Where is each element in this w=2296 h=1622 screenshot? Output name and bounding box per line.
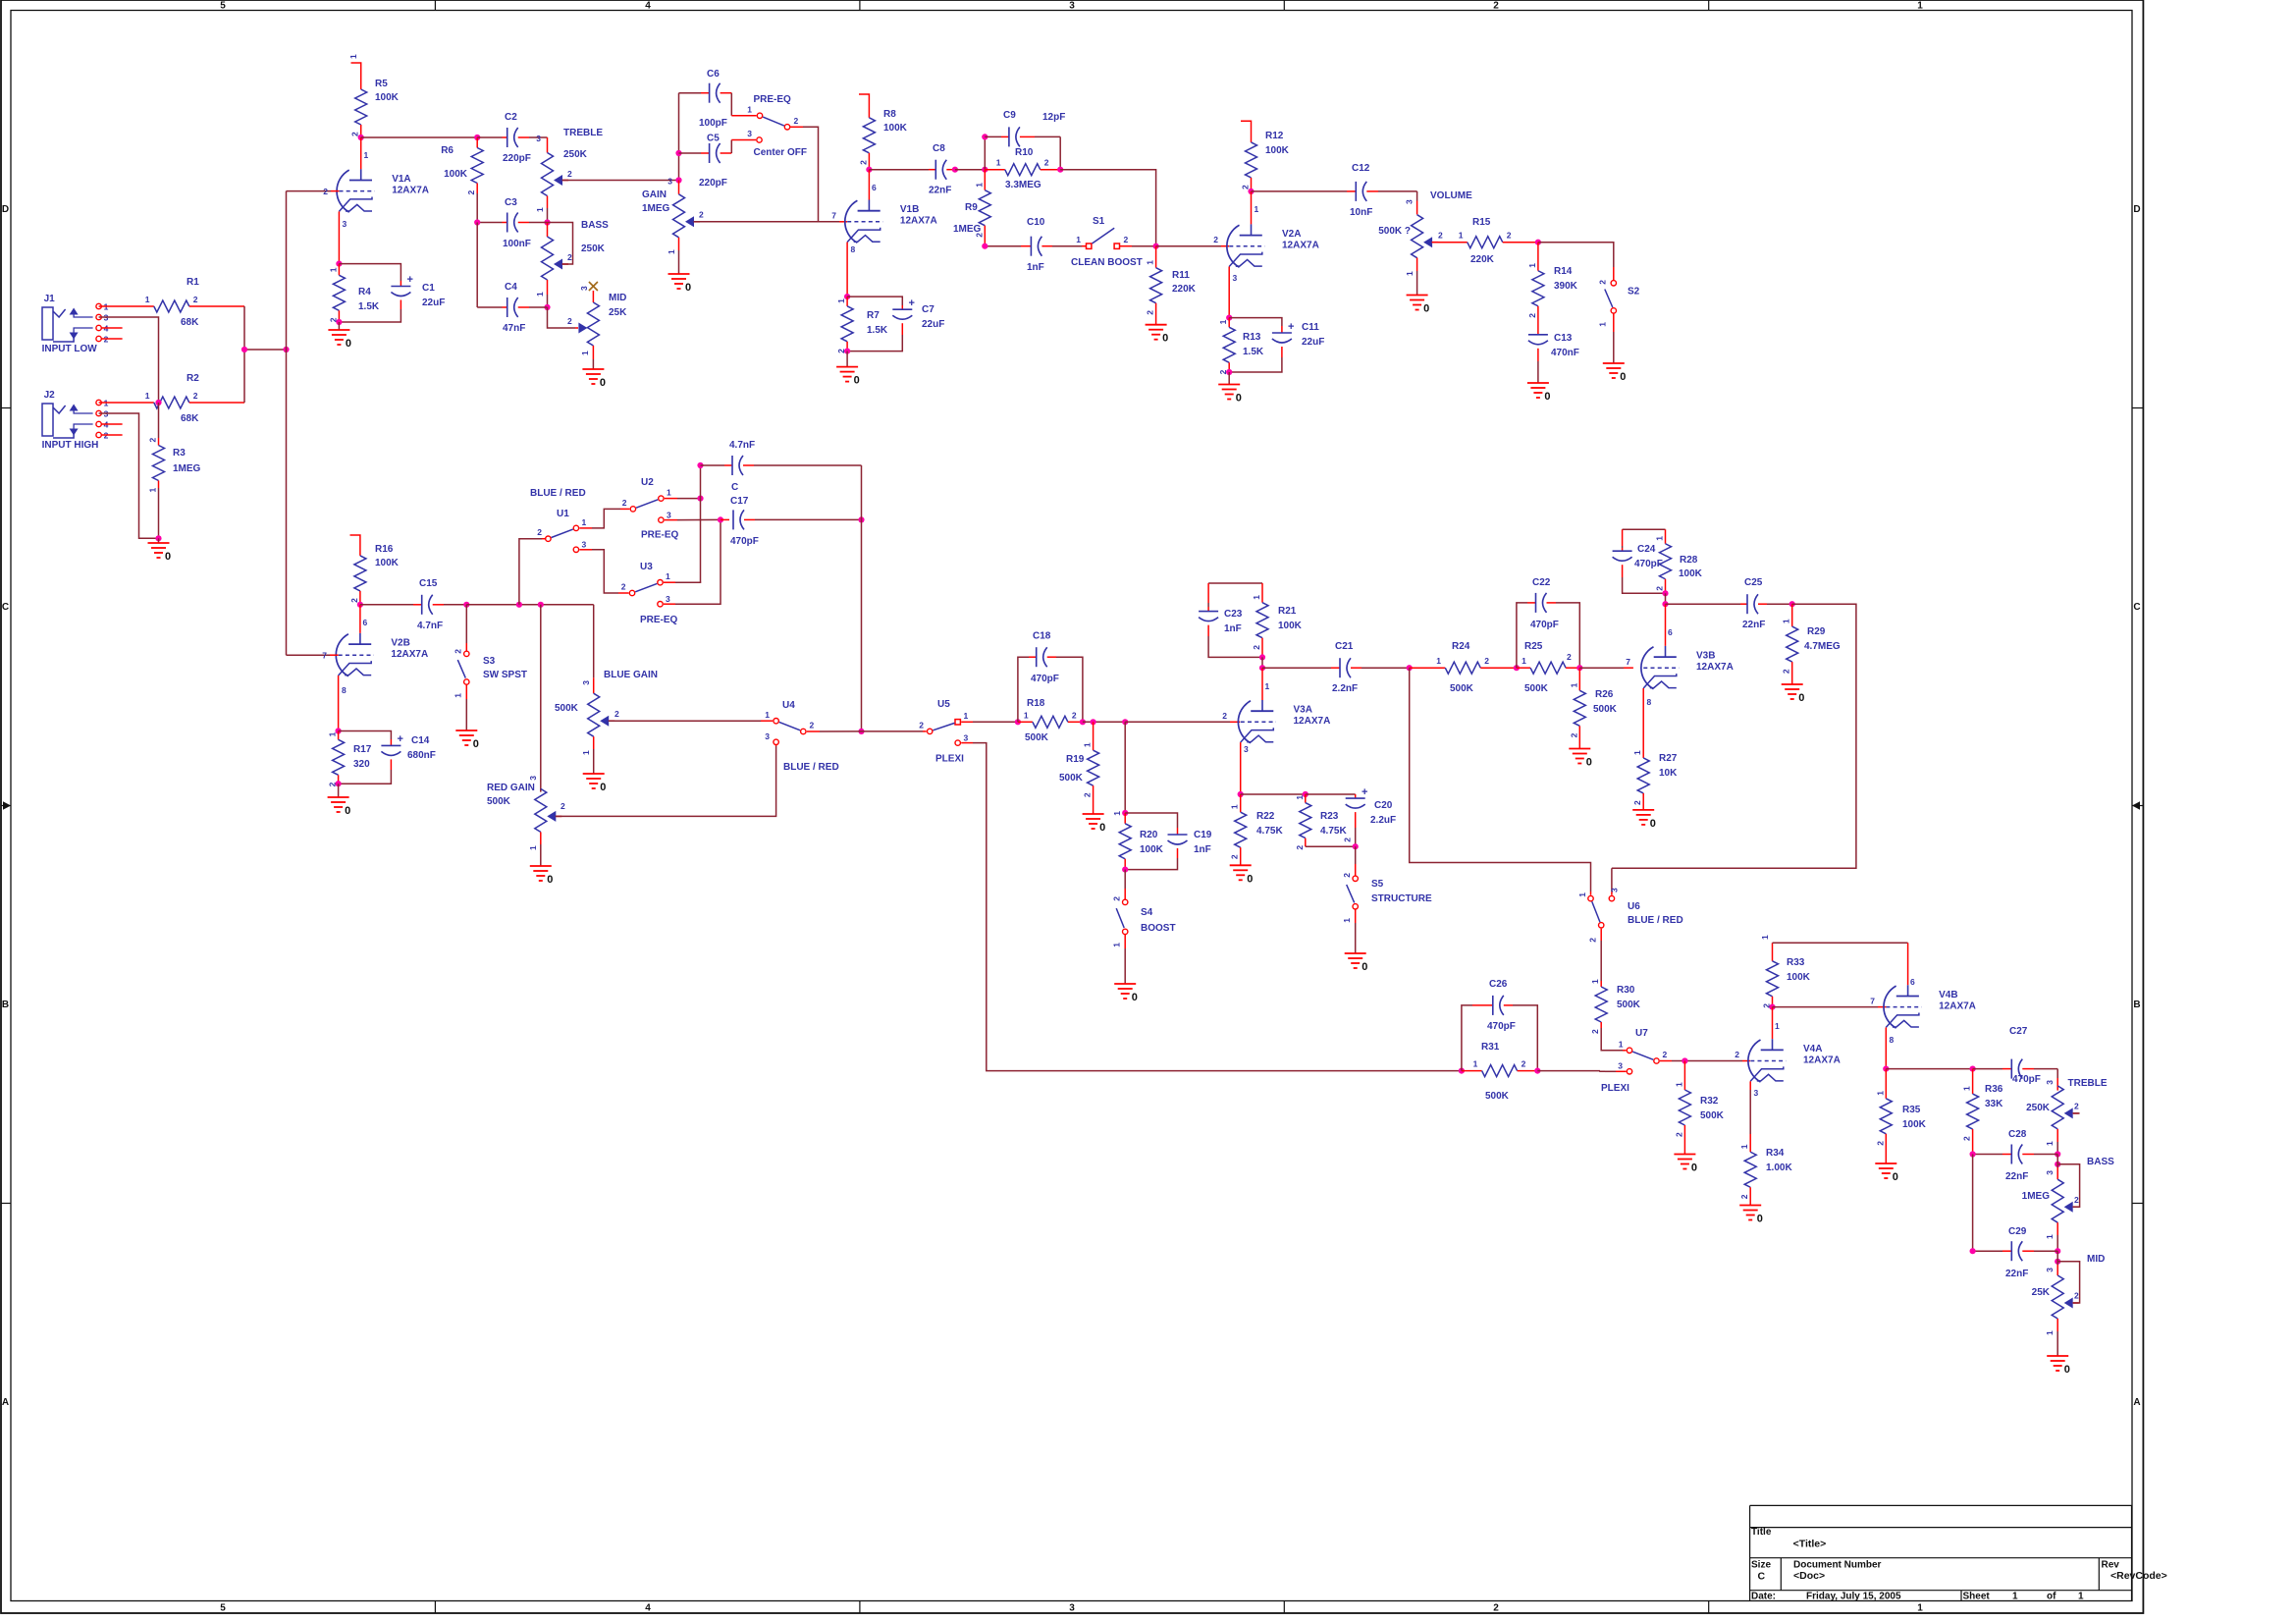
svg-text:22nF: 22nF xyxy=(1742,620,1765,630)
svg-text:S3: S3 xyxy=(483,656,496,667)
svg-text:C22: C22 xyxy=(1532,577,1551,588)
svg-text:1: 1 xyxy=(1405,271,1415,276)
ground RED GAIN xyxy=(530,865,552,867)
svg-text:R26: R26 xyxy=(1595,689,1614,700)
svg-text:100K: 100K xyxy=(1140,844,1164,855)
wire V2B cathode xyxy=(338,676,340,731)
switch U5 xyxy=(928,729,933,733)
svg-text:CLEAN BOOST: CLEAN BOOST xyxy=(1071,257,1143,268)
svg-text:470pF: 470pF xyxy=(1487,1021,1516,1032)
resistor R30 xyxy=(1600,981,1602,987)
svg-text:25K: 25K xyxy=(609,307,627,318)
svg-text:R16: R16 xyxy=(375,544,394,555)
svg-text:0: 0 xyxy=(1544,391,1550,403)
switch U6 BLUE/RED xyxy=(1588,895,1593,900)
svg-text:0: 0 xyxy=(1586,757,1592,769)
potentiometer TREBLE xyxy=(542,153,554,196)
switch U3 xyxy=(629,590,634,595)
svg-text:U5: U5 xyxy=(937,699,950,710)
svg-text:2: 2 xyxy=(699,210,704,220)
wire R30 to U7 pin1 xyxy=(1601,1028,1623,1051)
svg-text:PLEXI: PLEXI xyxy=(1601,1083,1629,1094)
svg-text:1: 1 xyxy=(1527,263,1537,268)
node ground junction xyxy=(155,535,161,541)
svg-text:0: 0 xyxy=(1162,333,1168,345)
svg-text:PRE-EQ: PRE-EQ xyxy=(754,94,792,105)
resistor R12 xyxy=(1241,121,1252,129)
wire V2B grid stub xyxy=(287,654,331,656)
svg-text:0: 0 xyxy=(685,282,691,294)
svg-text:2: 2 xyxy=(466,190,476,195)
svg-text:0: 0 xyxy=(1650,818,1656,830)
capacitor C9 xyxy=(984,136,986,169)
svg-text:2: 2 xyxy=(1146,310,1155,315)
svg-text:6: 6 xyxy=(872,183,877,192)
svg-text:100K: 100K xyxy=(375,558,400,568)
svg-text:V4A: V4A xyxy=(1803,1044,1822,1054)
wire RED GAIN column xyxy=(540,605,542,792)
switch S1 CLEAN BOOST xyxy=(1082,245,1087,247)
svg-text:1: 1 xyxy=(1342,918,1352,923)
capacitor C12 xyxy=(1252,190,1348,192)
svg-text:C: C xyxy=(2,602,9,613)
svg-text:Sheet: Sheet xyxy=(1963,1591,1991,1601)
svg-text:STRUCTURE: STRUCTURE xyxy=(1371,893,1432,904)
svg-text:Size: Size xyxy=(1751,1560,1771,1571)
potentiometer MID (2) xyxy=(2056,1265,2058,1275)
svg-text:2: 2 xyxy=(1735,1050,1739,1059)
svg-text:1nF: 1nF xyxy=(1194,844,1211,855)
svg-text:Rev: Rev xyxy=(2102,1560,2120,1571)
potentiometer TREBLE (2) xyxy=(2052,1086,2063,1129)
svg-text:1: 1 xyxy=(1436,656,1441,666)
svg-text:68K: 68K xyxy=(181,317,199,328)
svg-text:1: 1 xyxy=(1252,595,1261,600)
svg-text:0: 0 xyxy=(1691,1162,1697,1174)
svg-text:C18: C18 xyxy=(1033,631,1051,642)
node R4 bottom xyxy=(336,319,342,325)
svg-text:1.00K: 1.00K xyxy=(1766,1162,1792,1173)
svg-text:Friday, July 15, 2005: Friday, July 15, 2005 xyxy=(1806,1591,1901,1601)
svg-text:3: 3 xyxy=(1754,1088,1759,1098)
wire V3B plate column xyxy=(1665,593,1667,604)
node R6 top xyxy=(474,135,480,140)
svg-text:2: 2 xyxy=(810,721,815,730)
svg-text:1: 1 xyxy=(1775,1021,1780,1031)
svg-text:0: 0 xyxy=(345,805,350,817)
wire U1 pin3 to U3 pin2 xyxy=(579,549,592,551)
svg-text:2.2uF: 2.2uF xyxy=(1370,815,1396,826)
node U1 column xyxy=(516,602,522,608)
resistor R8 xyxy=(859,94,869,101)
potentiometer VOLUME xyxy=(1412,215,1423,258)
ground C13 xyxy=(1527,382,1549,384)
svg-text:1MEG: 1MEG xyxy=(173,463,201,474)
svg-text:1.5K: 1.5K xyxy=(1243,347,1264,357)
svg-text:TREBLE: TREBLE xyxy=(563,128,603,138)
svg-text:0: 0 xyxy=(854,375,860,387)
wire TREBLE2 wiper stub xyxy=(2073,1112,2080,1114)
svg-text:INPUT LOW: INPUT LOW xyxy=(42,344,98,354)
svg-text:1: 1 xyxy=(1655,536,1665,541)
svg-text:500K: 500K xyxy=(487,796,511,807)
svg-text:2: 2 xyxy=(1222,711,1227,721)
wire TREBLE wiper to GAIN xyxy=(562,180,679,182)
wire V3B plate xyxy=(1665,604,1667,646)
node R20 column top xyxy=(1122,719,1128,725)
ground input xyxy=(158,538,160,543)
node R36 top xyxy=(1970,1066,1976,1072)
resistor R5 xyxy=(351,63,361,77)
svg-text:680nF: 680nF xyxy=(407,750,436,761)
node C20 bottom xyxy=(1353,843,1359,849)
svg-text:C10: C10 xyxy=(1027,217,1045,228)
svg-text:2: 2 xyxy=(323,187,328,196)
resistor R3 xyxy=(158,403,160,438)
svg-text:6: 6 xyxy=(363,618,368,627)
ground R35 xyxy=(1875,1162,1896,1164)
capacitor C17 xyxy=(721,518,729,520)
node V1B cathode xyxy=(844,294,850,299)
node V3A plate xyxy=(1259,665,1265,671)
svg-text:C19: C19 xyxy=(1194,830,1212,840)
svg-text:2: 2 xyxy=(567,252,572,262)
node V1A cathode xyxy=(336,261,342,267)
svg-text:100K: 100K xyxy=(1787,972,1811,983)
wire U3 pin1 to C16 column xyxy=(664,581,675,583)
svg-text:A: A xyxy=(2133,1397,2140,1408)
svg-text:J1: J1 xyxy=(44,294,56,304)
svg-text:1: 1 xyxy=(580,351,590,355)
triode V1A xyxy=(360,169,362,180)
ground S3 xyxy=(455,730,477,731)
wire C27 to TREBLE2 xyxy=(2056,1069,2058,1078)
svg-text:S5: S5 xyxy=(1371,879,1384,890)
svg-text:0: 0 xyxy=(1620,371,1626,383)
node BASS2 top xyxy=(2055,1162,2060,1167)
wire V1A plate row xyxy=(361,136,478,138)
node V1B plate xyxy=(866,167,872,173)
switch S5 STRUCTURE xyxy=(1355,846,1357,864)
svg-text:0: 0 xyxy=(1757,1214,1763,1225)
svg-text:1: 1 xyxy=(1230,804,1240,809)
wire U7 pin3 to PLEXI run xyxy=(1616,1070,1627,1072)
svg-text:6: 6 xyxy=(1910,977,1915,987)
svg-text:1: 1 xyxy=(1265,681,1270,691)
svg-text:2: 2 xyxy=(567,169,572,179)
node V2A cathode xyxy=(1226,315,1232,321)
svg-text:R11: R11 xyxy=(1172,270,1190,281)
resistor R2 xyxy=(99,402,154,404)
svg-text:<Doc>: <Doc> xyxy=(1793,1570,1825,1582)
svg-text:1: 1 xyxy=(666,571,670,581)
svg-text:2: 2 xyxy=(148,438,158,443)
node C16 column mid xyxy=(697,496,703,502)
wire V1B plate xyxy=(868,170,870,200)
node R14 top xyxy=(1535,240,1541,245)
wire C21 node to U6 pin1 xyxy=(1410,668,1591,892)
svg-text:C20: C20 xyxy=(1374,800,1393,811)
svg-text:R17: R17 xyxy=(353,744,372,755)
svg-text:1: 1 xyxy=(1076,235,1081,244)
svg-text:3: 3 xyxy=(667,511,671,520)
potentiometer BLUE GAIN xyxy=(593,677,595,693)
switch PRE-EQ Center OFF xyxy=(757,113,762,118)
svg-text:500K: 500K xyxy=(1524,683,1549,694)
node R24 right xyxy=(1514,665,1520,671)
svg-text:1: 1 xyxy=(528,845,538,850)
svg-text:1: 1 xyxy=(1024,710,1029,720)
svg-text:2: 2 xyxy=(1438,231,1443,241)
svg-text:390K: 390K xyxy=(1554,281,1578,292)
wire R15 to S2 xyxy=(1538,243,1614,267)
svg-text:470nF: 470nF xyxy=(1551,348,1579,358)
svg-text:3.3MEG: 3.3MEG xyxy=(1005,180,1041,190)
svg-text:2: 2 xyxy=(1252,645,1261,650)
svg-text:320: 320 xyxy=(353,759,370,770)
node U4/U5 row xyxy=(858,729,864,734)
svg-text:1: 1 xyxy=(535,292,545,297)
svg-text:C14: C14 xyxy=(411,735,430,746)
svg-text:2: 2 xyxy=(1782,669,1791,674)
wire R23 bottom to C20 bottom xyxy=(1306,845,1356,847)
svg-text:C27: C27 xyxy=(2009,1026,2028,1037)
svg-text:V2A: V2A xyxy=(1282,229,1301,240)
resistor R33 xyxy=(1772,943,1774,950)
svg-text:0: 0 xyxy=(2064,1364,2070,1376)
svg-text:1: 1 xyxy=(364,150,369,160)
svg-text:C7: C7 xyxy=(922,304,934,315)
svg-text:1: 1 xyxy=(348,54,358,59)
svg-text:PRE-EQ: PRE-EQ xyxy=(641,530,679,541)
svg-text:1: 1 xyxy=(454,693,463,698)
svg-text:2: 2 xyxy=(1044,158,1049,168)
svg-text:10K: 10K xyxy=(1659,768,1678,779)
svg-text:C2: C2 xyxy=(505,112,517,123)
svg-text:3: 3 xyxy=(1618,1061,1623,1071)
svg-text:A: A xyxy=(2,1397,9,1408)
capacitor C6 xyxy=(679,92,702,94)
svg-text:1MEG: 1MEG xyxy=(642,203,670,214)
triode V4B xyxy=(1907,985,1909,996)
wire U2 pin1 to C16 column xyxy=(665,498,677,500)
svg-text:0: 0 xyxy=(1236,393,1242,405)
svg-text:R23: R23 xyxy=(1320,811,1339,822)
capacitor C28 xyxy=(1972,1068,1974,1070)
centering arrows xyxy=(3,801,11,810)
svg-text:2: 2 xyxy=(454,649,463,654)
svg-text:0: 0 xyxy=(165,551,171,563)
svg-text:R1: R1 xyxy=(187,277,199,288)
svg-text:22nF: 22nF xyxy=(2005,1171,2028,1182)
svg-text:R24: R24 xyxy=(1452,641,1470,652)
node J2.1 xyxy=(155,400,161,405)
svg-text:2: 2 xyxy=(1875,1141,1885,1146)
svg-text:1: 1 xyxy=(1739,1144,1749,1149)
resistor R36 xyxy=(1972,1069,1974,1094)
resistor R27 xyxy=(1642,741,1644,758)
svg-text:2: 2 xyxy=(2074,1291,2079,1301)
node input junction xyxy=(241,347,247,352)
svg-text:V2B: V2B xyxy=(391,638,409,649)
svg-text:470pF: 470pF xyxy=(1530,620,1559,630)
node R13 bottom xyxy=(1226,369,1232,375)
potentiometer RED GAIN xyxy=(540,791,542,793)
triode V2B xyxy=(359,633,361,644)
svg-text:3: 3 xyxy=(666,594,670,604)
svg-text:+: + xyxy=(909,297,915,309)
svg-text:2: 2 xyxy=(567,316,572,326)
svg-text:Center OFF: Center OFF xyxy=(754,147,807,158)
svg-text:V4B: V4B xyxy=(1939,990,1957,1000)
wire R6 column to C4 row xyxy=(476,223,478,308)
node V3A cathode xyxy=(1238,791,1244,797)
ground R32 xyxy=(1674,1154,1695,1156)
wire S2 to ground xyxy=(1613,313,1615,332)
switch S3 SW SPST xyxy=(465,605,467,643)
potentiometer MID xyxy=(578,323,587,334)
svg-text:BLUE / RED: BLUE / RED xyxy=(530,488,586,499)
svg-text:2: 2 xyxy=(537,527,542,537)
node R9 bottom xyxy=(982,243,988,249)
svg-text:500K: 500K xyxy=(1700,1110,1725,1121)
svg-text:1: 1 xyxy=(1083,742,1093,747)
svg-text:C4: C4 xyxy=(505,282,517,293)
wire cathode row to R23 xyxy=(1241,793,1306,795)
svg-text:2: 2 xyxy=(1663,1050,1668,1059)
svg-text:C25: C25 xyxy=(1744,577,1763,588)
svg-text:2: 2 xyxy=(1072,710,1077,720)
wire C15 row to BLUE GAIN xyxy=(466,604,593,606)
svg-text:2: 2 xyxy=(1230,854,1240,859)
wire V3A plate column xyxy=(1261,657,1263,668)
svg-text:500K: 500K xyxy=(1617,1000,1641,1010)
svg-text:+: + xyxy=(1362,786,1367,798)
svg-text:0: 0 xyxy=(346,338,351,350)
capacitor C15 xyxy=(360,604,413,606)
svg-text:1nF: 1nF xyxy=(1027,262,1044,273)
svg-text:BASS: BASS xyxy=(581,220,609,231)
svg-text:1: 1 xyxy=(1112,811,1122,816)
svg-text:C13: C13 xyxy=(1554,333,1573,344)
svg-text:1: 1 xyxy=(1255,204,1259,214)
svg-text:1: 1 xyxy=(1459,231,1464,241)
svg-text:470pF: 470pF xyxy=(1031,674,1059,684)
svg-text:500K: 500K xyxy=(1593,704,1618,715)
node C5 left xyxy=(675,150,681,156)
svg-text:B: B xyxy=(2,1000,9,1010)
svg-text:1MEG: 1MEG xyxy=(2022,1191,2051,1202)
svg-text:3: 3 xyxy=(667,177,672,187)
jack J1 INPUT LOW xyxy=(42,307,53,340)
svg-text:1: 1 xyxy=(1917,1,1923,12)
wire V1A plate xyxy=(360,137,362,169)
wire C16/C17 right column to U5 row xyxy=(861,465,863,731)
svg-text:J2: J2 xyxy=(44,390,56,401)
ground R19 xyxy=(1083,813,1104,815)
svg-text:8: 8 xyxy=(1890,1035,1895,1045)
node R31 right xyxy=(1534,1068,1540,1074)
svg-text:4.7nF: 4.7nF xyxy=(417,621,443,631)
wire V4A plate row to V4B grid xyxy=(1773,1006,1879,1008)
svg-text:1: 1 xyxy=(2078,1591,2084,1601)
svg-text:SW SPST: SW SPST xyxy=(483,670,527,680)
svg-text:3: 3 xyxy=(964,733,969,743)
svg-text:2: 2 xyxy=(561,801,565,811)
svg-text:R10: R10 xyxy=(1015,147,1034,158)
ground V2A cathode xyxy=(1228,372,1230,385)
svg-text:0: 0 xyxy=(600,377,606,389)
switch U1 BLUE/RED xyxy=(546,536,551,541)
wire V1A cathode xyxy=(338,211,340,263)
svg-text:1: 1 xyxy=(1522,656,1526,666)
svg-text:Document Number: Document Number xyxy=(1793,1560,1882,1571)
node S3 top xyxy=(463,602,469,608)
svg-text:22nF: 22nF xyxy=(929,186,951,196)
svg-text:Date:: Date: xyxy=(1751,1591,1776,1601)
svg-text:C: C xyxy=(2133,602,2140,613)
svg-text:1: 1 xyxy=(328,267,338,272)
node R7 bottom xyxy=(844,349,850,354)
triode V3B xyxy=(1665,646,1667,657)
wire C28 left column to C29 xyxy=(1972,1155,1974,1252)
svg-text:0: 0 xyxy=(1362,961,1367,973)
svg-text:1: 1 xyxy=(1577,892,1587,897)
svg-text:22uF: 22uF xyxy=(1302,337,1324,348)
svg-text:1: 1 xyxy=(667,488,671,498)
wire RED GAIN wiper to U4 pin3 xyxy=(556,815,765,817)
svg-text:C9: C9 xyxy=(1003,110,1016,121)
ground GAIN xyxy=(668,273,690,275)
svg-text:2: 2 xyxy=(919,721,924,730)
svg-text:1: 1 xyxy=(1473,1059,1478,1069)
svg-text:22nF: 22nF xyxy=(2005,1269,2028,1279)
wire V3A plate xyxy=(1261,668,1263,700)
triode V1B xyxy=(868,200,870,211)
svg-text:68K: 68K xyxy=(181,413,199,424)
node R19 top xyxy=(1091,719,1096,725)
resistor R13 xyxy=(1228,318,1230,328)
node V3A plate loop xyxy=(1259,654,1265,660)
svg-text:C6: C6 xyxy=(707,69,720,80)
capacitor C8 xyxy=(869,169,929,171)
svg-text:R5: R5 xyxy=(375,79,388,89)
svg-text:100K: 100K xyxy=(1679,568,1703,579)
node V1A plate xyxy=(358,135,364,140)
node C25 right xyxy=(1789,601,1795,607)
svg-text:2: 2 xyxy=(349,598,359,603)
wire S1 to V2A grid node xyxy=(1120,245,1132,247)
svg-text:12AX7A: 12AX7A xyxy=(1294,716,1331,727)
node R32 top xyxy=(1682,1057,1687,1063)
svg-text:BLUE GAIN: BLUE GAIN xyxy=(604,670,658,680)
svg-text:1: 1 xyxy=(1569,682,1578,687)
node R18 right xyxy=(1080,719,1086,725)
wire trunk input bus xyxy=(286,191,288,656)
svg-text:0: 0 xyxy=(1099,822,1105,834)
wire V1B cathode xyxy=(846,243,848,297)
svg-text:2: 2 xyxy=(614,709,619,719)
svg-text:3: 3 xyxy=(343,219,347,229)
svg-text:R31: R31 xyxy=(1481,1042,1500,1053)
svg-text:2: 2 xyxy=(2074,1195,2079,1205)
capacitor C29 xyxy=(1973,1250,2002,1252)
svg-text:7: 7 xyxy=(1626,657,1630,667)
svg-text:100K: 100K xyxy=(883,123,908,134)
svg-text:R20: R20 xyxy=(1140,830,1158,840)
svg-text:R15: R15 xyxy=(1472,217,1491,228)
wire R1.2/R2.2 to junction xyxy=(243,306,245,403)
